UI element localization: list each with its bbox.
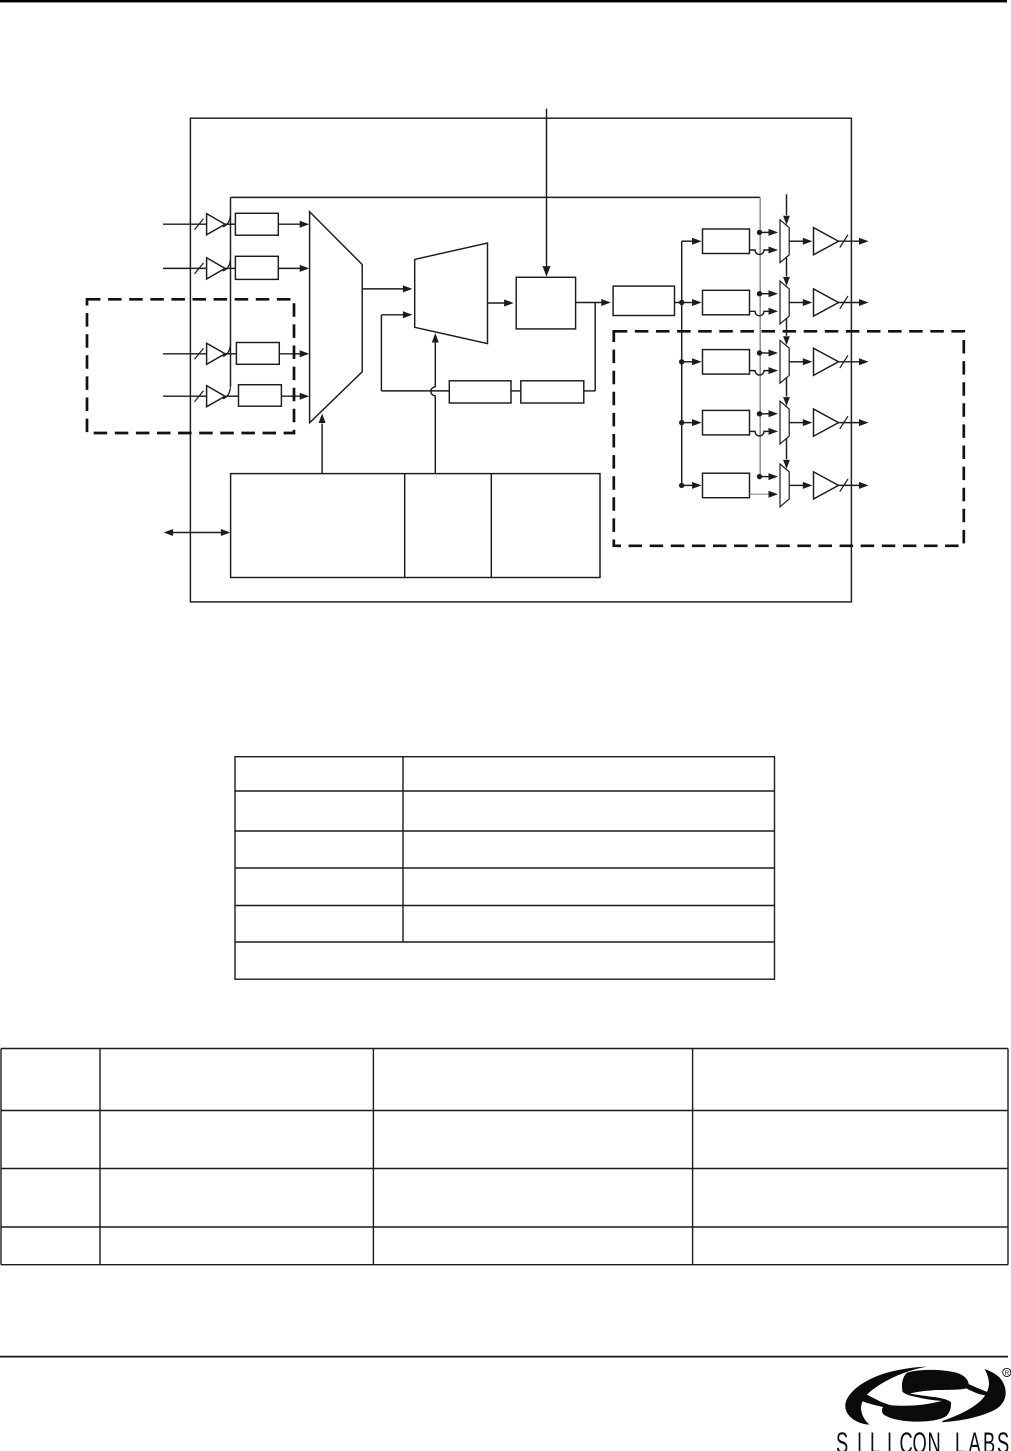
junction dot distribution bus <box>679 300 684 305</box>
table2 column line <box>692 1049 694 1265</box>
junction dot distribution bus <box>679 359 684 364</box>
wire mux M1 select <box>321 424 323 474</box>
junction dot distribution bus <box>679 420 684 425</box>
wire clock distribution bus <box>681 241 683 485</box>
wire PLL to output divider <box>576 302 602 304</box>
input buffer B3 <box>207 343 225 364</box>
wire block R2 to mux <box>278 267 301 269</box>
wire buffer B4 to block <box>225 395 239 397</box>
wire bypass to mux N3 upper input <box>760 352 770 354</box>
curved slash after buffer B4 <box>223 387 231 398</box>
differential slash CLKOUT3 <box>840 355 848 368</box>
feedback block FB1 <box>449 381 511 403</box>
output mux M4 <box>780 340 789 383</box>
SILICON LABS wordmark <box>836 1428 1009 1451</box>
differential slash CLKOUT4 <box>840 416 848 429</box>
wire CLKIN vertical into PLL <box>546 109 548 268</box>
wire bus to divider N5 <box>682 484 695 486</box>
block input stage R2 <box>235 256 278 279</box>
wire between feedback blocks <box>511 390 521 392</box>
differential slash CLKOUT1 <box>840 235 848 248</box>
svg-text:R: R <box>1005 1370 1010 1377</box>
channel divider N3 <box>703 350 750 375</box>
differential slash CLK2 <box>195 263 204 274</box>
output mux M3 <box>780 281 789 324</box>
svg-text:L: L <box>870 1428 880 1451</box>
output mux M2 <box>780 220 789 263</box>
differential slash CLK4 <box>195 391 204 402</box>
curved slash after buffer B3 <box>223 345 231 356</box>
wire bypass to mux N4 upper input <box>760 413 770 415</box>
wire U3 to distribution bus <box>675 302 682 304</box>
control block (3 sections) <box>231 474 600 578</box>
junction dot bypass bus N4 <box>757 411 762 416</box>
Silicon Labs logo swirl <box>845 1367 1005 1425</box>
wire bypass to mux N2 upper input <box>760 293 770 295</box>
registered trademark symbol <box>1003 1368 1011 1376</box>
wire divider N5 to mux lower input <box>750 493 770 495</box>
wire bypass to mux N1 upper input <box>760 231 770 233</box>
input mux M1 <box>310 212 363 423</box>
wire buffer B2 to block <box>225 267 235 269</box>
svg-text:O: O <box>913 1428 927 1451</box>
output wire CLKOUT2 <box>839 302 860 304</box>
channel divider N2 <box>703 290 750 315</box>
channel divider N1 <box>703 229 750 254</box>
input wire CLK2 <box>163 267 207 269</box>
divider trapezoid D1 <box>415 243 488 344</box>
junction dot bypass bus N1 <box>757 230 762 235</box>
svg-text:I: I <box>887 1428 892 1451</box>
table2 column line <box>99 1049 101 1265</box>
wire select chain into mux M3 <box>786 257 788 276</box>
differential slash CLKOUT2 <box>840 296 848 309</box>
wire bypass bus left vertical <box>230 197 232 387</box>
table2 row line <box>1 1048 1008 1050</box>
junction dot bypass bus N3 <box>757 350 762 355</box>
input buffer B1 <box>207 214 225 235</box>
output mux M6 <box>780 464 789 507</box>
curved slash after buffer B2 <box>223 260 231 271</box>
dashed group box (optional inputs) <box>87 299 294 433</box>
table2 row line <box>1 1168 1008 1170</box>
dashed group box (optional outputs) <box>614 331 964 546</box>
input buffer B2 <box>207 258 225 279</box>
input buffer B4 <box>207 386 225 407</box>
wire select chain into mux M2 <box>786 194 788 215</box>
table1 row line <box>235 790 775 792</box>
output wire CLKOUT3 <box>839 361 860 363</box>
table2 row line <box>1 1226 1008 1228</box>
PLL block U2 <box>516 277 575 329</box>
input wire CLK4 <box>163 395 207 397</box>
wire divider N2 to mux lower input <box>750 311 770 316</box>
svg-text:C: C <box>899 1428 912 1451</box>
control block divider 2 <box>490 474 492 578</box>
svg-text:L: L <box>955 1428 965 1451</box>
svg-text:A: A <box>969 1428 982 1451</box>
wire bus to divider N1 <box>682 240 695 242</box>
chip outline U1 <box>190 118 851 602</box>
wire divider N3 to mux lower input <box>750 371 770 376</box>
svg-text:I: I <box>857 1428 862 1451</box>
table1 row line <box>235 905 775 907</box>
wire mux M5 to output buffer <box>789 422 804 424</box>
bidirectional serial bus arrow <box>173 532 223 534</box>
wire feedback tap vertical <box>594 303 596 391</box>
table2 column line <box>0 1049 2 1265</box>
wire mux M6 to output buffer <box>789 484 804 486</box>
wire select chain into mux M4 <box>786 319 788 336</box>
input wire CLK3 <box>163 353 207 355</box>
wire bypass bus horizontal <box>231 196 761 198</box>
wire select chain into mux M5 <box>786 378 788 397</box>
svg-text:B: B <box>983 1428 995 1451</box>
table2 column line <box>1007 1049 1009 1265</box>
wire divider N4 to mux lower input <box>750 431 770 436</box>
output wire CLKOUT5 <box>839 484 860 486</box>
channel divider N4 <box>703 410 750 435</box>
differential slash CLK1 <box>195 219 204 230</box>
header rule bar <box>0 0 1007 2</box>
channel divider N5 <box>703 473 750 498</box>
wire divider N1 to mux lower input <box>750 250 770 255</box>
wire buffer B3 to block <box>225 353 236 355</box>
table2 row line <box>1 1110 1008 1112</box>
wire mux M1 to divider <box>362 288 403 290</box>
output wire CLKOUT4 <box>839 422 860 424</box>
table1 row line <box>235 941 775 943</box>
wire block R3 to mux <box>279 353 301 355</box>
table1 column divider <box>402 757 404 942</box>
wire select chain into mux M6 <box>786 439 788 460</box>
output buffer OB1 <box>814 228 839 255</box>
wire bus to divider N2 <box>682 302 695 304</box>
table: skew characteristics <box>235 757 775 980</box>
junction dot bypass bus N2 <box>757 291 762 296</box>
input wire CLK1 <box>163 223 207 225</box>
output buffer OB4 <box>814 409 839 436</box>
table2 row line <box>1 1264 1008 1266</box>
feedback block FB2 <box>521 381 584 403</box>
svg-text:N: N <box>928 1428 941 1451</box>
differential slash CLKOUT5 <box>840 479 848 492</box>
differential slash CLK3 <box>195 348 204 359</box>
wire mux M4 to output buffer <box>789 361 804 363</box>
wire block R1 to mux <box>278 223 301 225</box>
block input stage R4 <box>239 385 282 407</box>
wire mux M3 to output buffer <box>789 302 804 304</box>
output buffer OB2 <box>814 289 839 316</box>
wire bypass bus right vertical (grey) <box>759 197 761 476</box>
table2 column line <box>372 1049 374 1265</box>
wire bypass to mux N5 upper input <box>760 476 770 478</box>
wire mux M2 to output buffer <box>789 240 804 242</box>
wire feedback return <box>381 390 449 392</box>
curved slash after buffer B1 <box>223 215 231 226</box>
wire bus to divider N3 <box>682 361 695 363</box>
output mux M5 <box>780 401 789 444</box>
block input stage R3 <box>236 343 279 365</box>
output buffer OB3 <box>814 348 839 375</box>
output wire CLKOUT1 <box>839 240 860 242</box>
table1 row line <box>235 830 775 832</box>
control block divider 1 <box>404 474 406 578</box>
wire divider control with hop <box>431 342 436 474</box>
table1 row line <box>235 867 775 869</box>
output divider block U3 <box>613 286 674 315</box>
wire bus to divider N4 <box>682 422 695 424</box>
junction dot distribution bus <box>679 483 684 488</box>
output buffer OB5 <box>814 472 839 499</box>
svg-text:S: S <box>836 1428 848 1451</box>
wire buffer B1 to block <box>225 223 235 225</box>
wire block R4 to mux <box>281 395 301 397</box>
wire feedback tap horizontal <box>584 390 595 392</box>
block input stage R1 <box>235 213 278 235</box>
svg-text:S: S <box>997 1428 1009 1451</box>
footer rule <box>0 1356 1008 1358</box>
wire divider D1 to PLL <box>488 302 505 304</box>
junction dot bypass bus N5 <box>757 474 762 479</box>
